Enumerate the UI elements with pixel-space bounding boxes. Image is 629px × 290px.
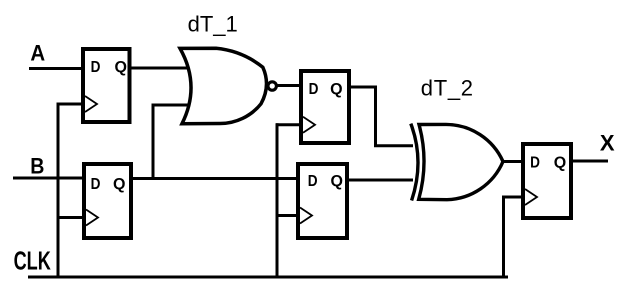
svg-text:B: B xyxy=(30,155,44,179)
svg-text:D: D xyxy=(530,155,540,172)
svg-text:Q: Q xyxy=(113,176,125,193)
svg-text:dT_2: dT_2 xyxy=(421,76,474,101)
svg-text:Q: Q xyxy=(114,59,126,76)
svg-text:D: D xyxy=(91,59,101,76)
svg-text:Q: Q xyxy=(554,155,566,172)
svg-text:D: D xyxy=(308,173,318,190)
svg-text:dT_1: dT_1 xyxy=(188,12,238,37)
svg-text:CLK: CLK xyxy=(14,247,51,276)
svg-text:X: X xyxy=(600,130,615,155)
svg-text:Q: Q xyxy=(330,173,342,190)
svg-text:Q: Q xyxy=(330,81,342,98)
svg-text:D: D xyxy=(91,176,101,193)
svg-text:A: A xyxy=(30,41,45,66)
svg-text:D: D xyxy=(309,81,319,98)
